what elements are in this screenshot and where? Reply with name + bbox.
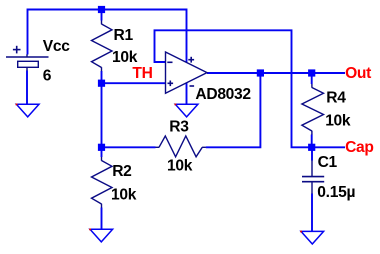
svg-text:C1: C1 [318, 154, 338, 171]
svg-text:R2: R2 [112, 163, 132, 180]
svg-text:Vcc: Vcc [43, 38, 70, 55]
svg-text:Out: Out [345, 65, 371, 82]
svg-text:6: 6 [43, 68, 52, 85]
svg-text:Cap: Cap [345, 139, 374, 156]
svg-text:R1: R1 [114, 27, 134, 44]
svg-text:R3: R3 [169, 119, 189, 136]
svg-text:10k: 10k [167, 157, 193, 174]
svg-text:R4: R4 [326, 89, 346, 106]
svg-text:10k: 10k [112, 49, 138, 66]
svg-text:0.15µ: 0.15µ [317, 184, 355, 201]
svg-text:10k: 10k [325, 113, 351, 130]
svg-text:TH: TH [132, 65, 152, 82]
svg-text:AD8032: AD8032 [195, 86, 251, 103]
svg-text:10k: 10k [111, 186, 137, 203]
